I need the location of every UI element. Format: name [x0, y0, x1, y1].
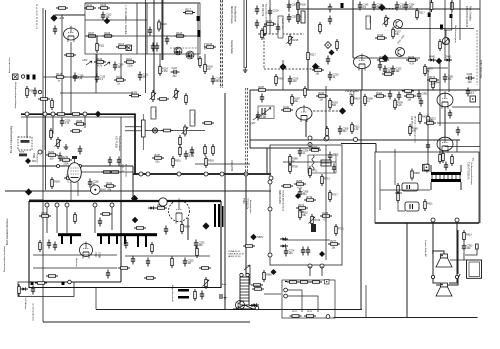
resistor R429	[419, 112, 429, 124]
resistor R709	[289, 162, 299, 174]
capacitor screen a	[108, 157, 112, 166]
node box pin left	[269, 176, 273, 180]
boxed label trap	[366, 16, 371, 29]
resistor R161 above bus	[26, 86, 36, 98]
capacitor screen b	[117, 157, 121, 166]
resistor R158 below chain	[199, 56, 202, 68]
wire y164 link	[195, 163, 250, 165]
resistor R boost near coil	[243, 245, 255, 248]
node plug LA1 b	[455, 275, 458, 278]
svg-text:Ton-ZF Teil: Ton-ZF Teil	[281, 18, 283, 29]
svg-text:R117: R117	[185, 9, 191, 12]
capacitor C705	[328, 152, 339, 161]
svg-text:Heizkreis: Heizkreis	[75, 258, 78, 267]
node bus pin2	[146, 172, 150, 176]
svg-text:R166: R166	[408, 56, 414, 59]
resistor R193 left col	[70, 130, 82, 133]
resistor anode a	[101, 171, 113, 174]
capacitor C307	[404, 2, 415, 11]
resistor R431	[409, 124, 419, 136]
svg-text:R713: R713	[324, 177, 330, 180]
svg-text:560: 560	[332, 104, 337, 107]
resistor R306	[129, 92, 141, 97]
arrow -45V	[100, 61, 110, 66]
node psu pin2	[93, 203, 97, 207]
resistor R425	[394, 98, 404, 110]
node bus pin1	[139, 172, 143, 176]
wire IF module drop x97	[96, 36, 98, 44]
node psu pin1b	[55, 203, 59, 207]
test point boost	[131, 195, 138, 202]
svg-text:Bei aut. Frequenzregelung: Bei aut. Frequenzregelung	[10, 125, 13, 153]
wire top box top edge	[85, 2, 200, 4]
wire left border inner	[45, 10, 47, 190]
wire B4 to B5 drops	[310, 266, 322, 276]
wire chain x246 a	[245, 88, 247, 172]
wire audio box corner	[428, 68, 448, 170]
capacitor C603	[53, 242, 57, 251]
capacitor C465	[426, 142, 430, 151]
svg-text:25u: 25u	[155, 160, 160, 163]
resistor R619	[46, 275, 58, 278]
box psu inner divider	[29, 201, 121, 282]
resistor R225	[264, 24, 267, 36]
wire B6 bottom edge heavy	[375, 222, 479, 224]
wire below box links	[97, 54, 205, 78]
capacitor C153b dark	[155, 43, 159, 52]
svg-text:T200 TF2021/7e: T200 TF2021/7e	[467, 162, 470, 180]
resistor R231	[319, 22, 322, 34]
capacitor C207	[287, 14, 298, 23]
svg-text:R229: R229	[48, 151, 54, 154]
resistor R15k left of conv	[251, 284, 263, 287]
test point 560V	[250, 234, 263, 240]
wire bus y191	[5, 190, 271, 192]
svg-text:4,7k: 4,7k	[65, 122, 70, 125]
svg-text:R190: R190	[318, 92, 324, 95]
tube V17 PL500 line output pentode	[68, 157, 82, 202]
capacitor C219	[268, 8, 279, 17]
coil L685 bumps	[312, 155, 314, 170]
svg-text:(A NR-12 W): (A NR-12 W)	[228, 255, 241, 258]
wire conv internal	[288, 290, 318, 312]
diode OA81 sound 2	[444, 56, 452, 62]
diode test point	[325, 42, 332, 49]
capacitor C947 dark	[200, 291, 204, 300]
resistor R109	[102, 32, 114, 37]
svg-text:R931: R931	[466, 233, 472, 236]
capacitor C122 dark	[197, 30, 200, 37]
resistor R103	[98, 4, 110, 9]
wire into conv box	[264, 293, 281, 295]
svg-text:8,2k: 8,2k	[397, 104, 402, 107]
node vert pin left3	[268, 253, 272, 257]
wire dashed drop	[263, 34, 265, 69]
inner box around coil	[308, 155, 336, 173]
wire top feed bus	[300, 8, 480, 10]
text V9 selenium rectifier id	[228, 250, 245, 258]
tube socket circle small	[91, 185, 101, 195]
svg-text:V19: V19	[94, 252, 98, 257]
wire boost link	[132, 174, 134, 198]
svg-text:R319: R319	[377, 34, 383, 37]
junction circle crossed	[152, 128, 157, 133]
svg-text:OA81: OA81	[445, 56, 452, 59]
svg-text:R679: R679	[307, 311, 313, 313]
test point below diao	[329, 50, 335, 56]
resistor R123	[174, 32, 186, 37]
test point +160V	[271, 269, 277, 275]
resistor R641	[100, 213, 112, 216]
svg-text:2,2M: 2,2M	[162, 70, 167, 73]
node border pin	[38, 90, 41, 93]
svg-text:560: 560	[199, 244, 204, 247]
resistor R331	[439, 39, 449, 51]
wire heavy bus bent path	[21, 114, 135, 174]
svg-text:R703: R703	[311, 146, 317, 149]
resistor R154 topleft	[56, 7, 68, 10]
resistor R317	[416, 8, 426, 20]
capacitor C347	[378, 62, 382, 71]
socket square B6	[424, 164, 429, 170]
resistor R743	[281, 185, 293, 188]
resistor R801 conv top c	[310, 281, 322, 284]
wire companion line y117	[21, 116, 135, 118]
capacitor C621	[106, 270, 110, 279]
resistor R310	[185, 93, 188, 105]
diode near coil base	[249, 304, 257, 307]
capacitor C445	[328, 72, 339, 81]
wire bus y166 left	[29, 165, 133, 167]
wire corner drops	[444, 0, 452, 37]
capacitor C471	[388, 91, 392, 100]
resistor R803 conv bottom b	[304, 315, 316, 318]
resistor R448	[432, 78, 442, 90]
svg-text:R501: R501	[175, 159, 181, 162]
capacitor C153a dark	[151, 43, 155, 52]
resistor R645	[151, 242, 154, 254]
resistor R169 on bus	[55, 113, 67, 116]
resistor R322 col2	[212, 144, 215, 156]
svg-text:R259: R259	[296, 180, 302, 183]
wire plug to LS2	[433, 279, 457, 283]
resistor R607	[397, 183, 400, 195]
resistor R118	[158, 20, 168, 32]
resistor R605	[411, 169, 421, 181]
wire B6 left spine	[380, 149, 405, 211]
arrow +18V	[250, 116, 259, 125]
wire dashed y69	[264, 68, 320, 70]
capacitor C409	[256, 112, 267, 121]
capacitor C441	[288, 76, 299, 85]
svg-text:R505: R505	[208, 159, 214, 162]
capacitor C459	[456, 127, 460, 136]
svg-text:4,7k: 4,7k	[97, 64, 102, 67]
resistor R609 above xfmr	[439, 152, 442, 164]
wire horizontal bus y90 mid	[250, 89, 480, 91]
node plug LA1 a	[431, 275, 434, 278]
svg-text:3,3k: 3,3k	[299, 210, 304, 213]
svg-text:Beim Zeilentrafo-Wechsel: Beim Zeilentrafo-Wechsel	[6, 218, 9, 245]
resistor R312 row	[161, 129, 173, 132]
resistor R713	[321, 174, 331, 186]
tube V14 PCL85 driver	[354, 54, 371, 71]
node bus pin b	[43, 112, 47, 116]
test point video TP3	[339, 107, 346, 114]
svg-text:R111: R111	[99, 44, 105, 47]
node video out c	[354, 138, 358, 142]
wire psu internal link	[125, 255, 210, 257]
test point flyback	[202, 222, 209, 229]
capacitor C119	[165, 36, 169, 45]
capacitor and ground small	[220, 294, 227, 299]
heater bus thick bar left	[58, 233, 81, 236]
speaker LS1	[436, 254, 452, 267]
capacitor C742 pair b	[306, 247, 310, 256]
resistor R113	[116, 43, 128, 48]
resistor R309 top	[430, 0, 433, 12]
svg-text:Kanalschalter: Kanalschalter	[230, 40, 233, 54]
resistor dark R178	[19, 154, 27, 157]
node bus pin a	[25, 112, 29, 116]
capacitor C611	[194, 240, 205, 249]
test point 16V	[25, 158, 36, 164]
capacitor C220b	[255, 20, 259, 29]
capacitor C313 margin	[88, 179, 99, 188]
resistor R445	[424, 119, 436, 124]
svg-text:Antennenbuchse: Antennenbuchse	[8, 57, 11, 73]
wire IF module link	[85, 35, 200, 37]
capacitor C187	[60, 118, 71, 127]
wire right link y120	[437, 122, 480, 124]
socket square +	[470, 96, 476, 102]
svg-text:2,2M: 2,2M	[261, 116, 266, 119]
wire y77 link	[43, 76, 97, 78]
capacitor C155 topleft	[53, 26, 57, 35]
box convergence sub-box	[282, 280, 335, 318]
svg-text:R172: R172	[429, 76, 435, 79]
resistor R315 margin	[104, 182, 116, 191]
resistor R443	[312, 66, 324, 75]
wire ratio dashed link	[170, 47, 198, 49]
svg-text:120: 120	[293, 80, 298, 83]
svg-text:Uhr-Universal-prog.: Uhr-Universal-prog.	[454, 25, 457, 44]
tube V16 PCL84 video amp	[296, 105, 312, 122]
node bus pin4	[204, 172, 208, 176]
test point x283	[279, 63, 286, 70]
resistor R649	[196, 246, 199, 258]
resistor R135 below box	[124, 58, 136, 67]
wire right drop x440	[439, 60, 441, 126]
node spk terminal 1	[431, 218, 435, 222]
svg-text:R437: R437	[258, 86, 264, 89]
resistor R221	[264, 20, 276, 25]
svg-text:zur Tonbandbuchse: zur Tonbandbuchse	[32, 303, 35, 322]
resistor R439	[275, 74, 285, 86]
wire bottom bus y317	[334, 317, 478, 319]
svg-text:120: 120	[289, 252, 294, 255]
arrow spark gap	[244, 265, 250, 270]
resistor R629 in mains box	[18, 284, 21, 296]
capacitor C305	[395, 2, 406, 11]
svg-text:R123: R123	[176, 32, 182, 35]
capacitor C472	[397, 92, 401, 101]
capacitor C223	[276, 24, 280, 33]
svg-text:R423: R423	[376, 92, 382, 95]
resistor R139 below box	[114, 76, 126, 85]
wire horizontal bus y148	[250, 147, 320, 149]
svg-text:R439: R439	[278, 77, 284, 80]
node bus pin5	[220, 172, 224, 176]
resistor R617	[171, 256, 174, 268]
node margin pin	[38, 150, 42, 154]
svg-text:TF2021/2e: TF2021/2e	[246, 198, 248, 210]
resistor R131 below box	[94, 58, 106, 67]
tube socket circle psu	[159, 198, 167, 206]
svg-text:120: 120	[409, 6, 414, 9]
connector square audio	[423, 165, 430, 172]
capacitor C727	[298, 189, 309, 198]
resistor R165 above bus	[38, 98, 50, 101]
test point TP2	[312, 63, 319, 70]
resistor R125	[204, 43, 216, 48]
capacitor C105	[101, 12, 112, 21]
svg-text:R118: R118	[161, 23, 167, 26]
svg-text:2,2M: 2,2M	[189, 155, 194, 158]
svg-text:Vertikal-Ablenkeinheit: Vertikal-Ablenkeinheit	[282, 190, 285, 211]
resistor R316 col	[179, 145, 182, 157]
resistor R659	[39, 240, 42, 252]
svg-text:B-Sieb: B-Sieb	[369, 17, 371, 24]
svg-text:+ Bast: + Bast	[220, 283, 227, 286]
wire mid column x283	[282, 60, 284, 90]
svg-text:25u: 25u	[173, 75, 178, 78]
svg-text:+235: +235	[58, 16, 64, 20]
svg-text:R448: R448	[435, 81, 441, 84]
capacitor C611 above xfmr	[444, 162, 448, 171]
svg-text:50u: 50u	[343, 130, 348, 133]
capacitor anode cap V17	[72, 156, 77, 159]
wire top area verticals	[270, 0, 298, 34]
wire video drop1	[306, 120, 310, 147]
heater stub v8	[145, 236, 147, 247]
wire bus y309	[96, 309, 362, 311]
potentiometer line phase	[173, 88, 180, 100]
resistor R107	[86, 32, 98, 37]
tube V19 EY88 damper	[80, 242, 93, 259]
capacitor C302 in mains box	[31, 286, 35, 295]
svg-text:V18 EY81: V18 EY81	[230, 160, 233, 172]
wire IF box inner rail	[85, 19, 147, 21]
resistor R421	[364, 94, 374, 106]
wire right drop x449	[448, 40, 450, 92]
node coil top b	[246, 273, 249, 276]
capacitor C466	[425, 164, 429, 173]
svg-text:R411: R411	[283, 106, 289, 109]
wire vertical x154	[153, 0, 155, 93]
resistor R505	[205, 156, 215, 168]
wire speaker feed left	[433, 223, 444, 275]
svg-text:R723: R723	[314, 219, 321, 222]
resistor R171 on bus	[70, 113, 82, 116]
potentiometer line freq	[150, 90, 157, 102]
svg-text:R609: R609	[184, 225, 190, 228]
wire T200 winding ticks	[432, 175, 460, 179]
capacitor dark corner	[440, 25, 443, 30]
wire dashed from +190V	[386, 8, 397, 10]
node video out a	[308, 136, 312, 140]
node bus pin3	[177, 172, 181, 176]
resistor R473	[402, 90, 414, 93]
node y166 b	[79, 165, 82, 168]
box audio output transformer unit	[375, 152, 479, 223]
test point on bus	[95, 111, 101, 117]
capacitor C229	[328, 16, 332, 25]
capacitor C195 left	[78, 146, 82, 155]
diode OA dark top a	[428, 13, 431, 18]
resistor R945	[194, 289, 197, 301]
wire drops below heavy bus	[27, 117, 121, 202]
wire vertical x221 chain a	[220, 0, 222, 88]
resistor R711	[309, 166, 319, 178]
test point +235V top left	[50, 14, 64, 21]
capacitor C301	[358, 2, 369, 11]
svg-text:220k: 220k	[63, 162, 69, 165]
resistor R167 above bus	[51, 98, 54, 110]
resistor R309 margin	[51, 177, 61, 189]
capacitor C451	[417, 91, 428, 100]
wire vertical x308	[307, 0, 309, 90]
svg-text:L501: L501	[101, 189, 107, 191]
transistor ratio el b	[186, 51, 194, 59]
wire flyback drop	[187, 218, 189, 240]
test point margin	[25, 188, 32, 195]
svg-text:R309: R309	[54, 180, 60, 183]
svg-text:R731: R731	[338, 227, 344, 230]
wire vertical x221 chain rungs	[221, 2, 223, 86]
ground AFC	[64, 144, 69, 149]
resistor R737	[289, 154, 299, 166]
resistor R721	[299, 208, 309, 220]
svg-text:4,7k: 4,7k	[409, 62, 414, 65]
svg-text:Phasenvergl.: Phasenvergl.	[193, 112, 196, 125]
capacitor C227	[328, 4, 332, 13]
resistor R438 on bus	[304, 86, 307, 98]
capacitor C602	[47, 240, 51, 249]
resistor R311 margin	[64, 174, 76, 183]
svg-text:R709: R709	[292, 165, 298, 168]
resistor C617	[397, 191, 400, 203]
svg-text:+45V: +45V	[82, 60, 88, 62]
svg-text:R601: R601	[41, 212, 47, 215]
capacitor C325	[383, 66, 394, 75]
small square conv right	[325, 280, 330, 285]
capacitor C457	[448, 110, 452, 119]
resistor R611	[424, 199, 434, 211]
capacitor C205	[287, 2, 298, 11]
resistor R220c	[261, 28, 264, 40]
line output transformer T581 winding	[233, 277, 256, 309]
resistor R801 conv top a	[287, 281, 299, 284]
text sheet id 3150V/002	[36, 3, 38, 29]
box vertical deflection module outline	[270, 145, 342, 265]
wire vertical x133 tall	[132, 166, 134, 174]
resistor R323	[377, 56, 389, 61]
resistor R314 col	[179, 135, 182, 147]
svg-text:R101: R101	[86, 4, 92, 7]
resistor R509	[155, 204, 167, 209]
node vert pin bottom	[308, 264, 312, 268]
